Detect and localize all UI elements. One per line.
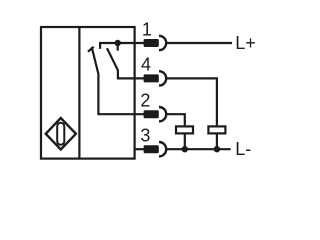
proximity sensor symbol (diamond) [46, 118, 76, 150]
wire pin2 to load 1 [166, 114, 185, 125]
wire pin1 internal (L+ feed) [100, 43, 144, 49]
sensor body outline [41, 27, 135, 159]
wire pin2 internal [97, 113, 144, 115]
junction dot load2 on L- rail [214, 146, 220, 152]
load resistor on pin4 output [208, 126, 225, 133]
connector contact pin3 (socket arc) [159, 142, 166, 156]
svg-text:4: 4 [141, 55, 151, 75]
proximity sensor symbol (inner capsule) [57, 123, 64, 145]
svg-text:1: 1 [142, 19, 152, 39]
svg-text:3: 3 [140, 126, 150, 146]
connector pin4 contact pill [144, 74, 159, 82]
svg-text:L-: L- [235, 139, 251, 159]
wire load1 to L- rail [184, 134, 186, 149]
NC contact arm to pin2 [92, 47, 99, 114]
wire pin1 to L+ [166, 42, 232, 44]
sensor internal divider [78, 27, 80, 159]
connector pin1 contact pill [144, 39, 159, 47]
svg-text:L+: L+ [235, 33, 256, 53]
connector contact pin4 (socket arc) [159, 71, 166, 85]
connector pin3 contact pill [144, 145, 159, 153]
NO contact arm to pin4 [107, 48, 118, 78]
switch common stub below junction [117, 43, 119, 51]
L- rail wire [166, 148, 231, 150]
wire load2 to L- rail [216, 134, 218, 149]
wire pin4 internal [117, 77, 144, 79]
wire pin3 from box edge [135, 148, 144, 150]
wire pin4 to load 2 [166, 78, 217, 125]
junction dot on pin1 feed [115, 40, 121, 46]
junction dot load1 on L- rail [182, 146, 188, 152]
connector pin2 contact pill [144, 110, 159, 118]
connector contact pin2 (socket arc) [159, 107, 166, 121]
NC contact stop bar [88, 47, 94, 52]
svg-text:2: 2 [140, 91, 150, 111]
connector contact pin1 (socket arc) [159, 36, 166, 50]
load resistor on pin2 output [176, 126, 193, 133]
